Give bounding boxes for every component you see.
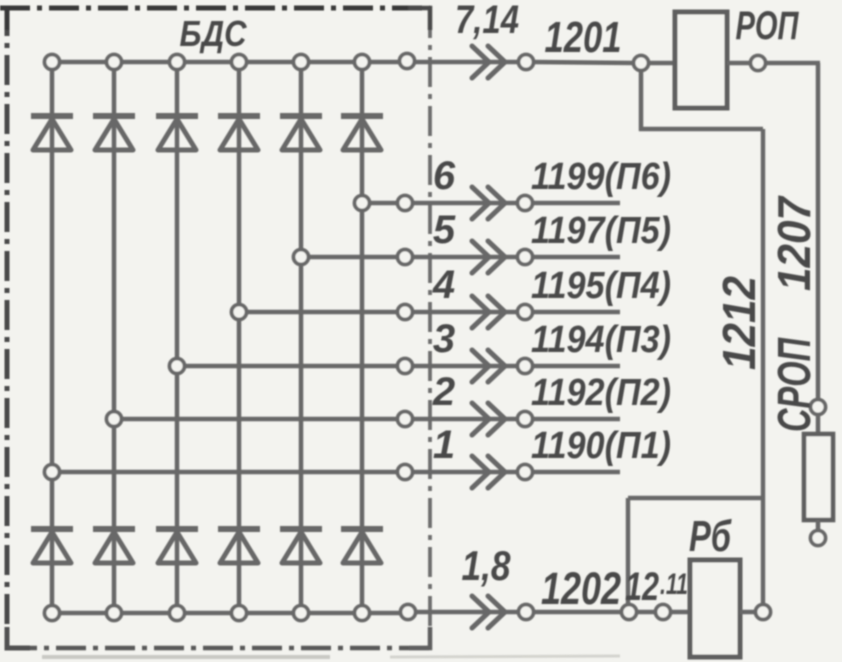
terminal tap 4 — [398, 305, 413, 320]
svg-text:12: 12 — [625, 565, 659, 609]
wire tap 5 stub under label — [532, 255, 620, 260]
svg-text:3: 3 — [433, 317, 455, 361]
terminal circle tap 3 external — [518, 359, 533, 374]
node junction before РОП — [634, 56, 649, 71]
svg-text:1212: 1212 — [713, 276, 765, 370]
terminal circle 1202 — [519, 605, 534, 620]
svg-text:1,8: 1,8 — [462, 542, 512, 589]
wire column 5 — [299, 68, 304, 607]
terminal circle tap 6 external — [518, 196, 533, 211]
wire bottom bus inside БДС — [52, 611, 408, 616]
wire column 2 — [112, 68, 117, 607]
terminal circle tap 2 external — [518, 412, 533, 427]
diode top row 1 — [31, 113, 73, 119]
node tap 6 on column 6 — [355, 196, 370, 211]
connector arrows tap 5 — [472, 241, 489, 273]
diode top row 4 — [218, 113, 260, 119]
wire 1201 to node — [533, 62, 634, 63]
wire tap 5 to border — [308, 255, 399, 260]
svg-text:РОП: РОП — [736, 4, 800, 48]
terminal circle 1201 — [519, 55, 534, 70]
terminal bottom bus at БДС edge — [401, 605, 416, 620]
terminal tap 2 — [398, 412, 413, 427]
svg-text:6: 6 — [433, 154, 456, 198]
node top bus column 6 — [355, 55, 370, 70]
БДС enclosure dashed border bottom — [7, 646, 430, 651]
wire tap 3 to border — [184, 364, 399, 369]
wire 1212 vertical — [761, 129, 765, 605]
svg-text:2: 2 — [432, 370, 455, 414]
wire contact 12 to contact 11 — [636, 610, 657, 615]
wire bottom bus external lead — [414, 610, 519, 615]
wire РБ to terminal — [740, 610, 757, 615]
wire РОП pin 2 to terminal — [727, 61, 751, 66]
wire 1202 — [533, 610, 622, 615]
wire contact 11 to РБ — [670, 610, 690, 615]
БДС enclosure dashed border left — [5, 6, 10, 649]
diode bottom row 5 — [280, 526, 322, 532]
connector arrows tap 2 — [472, 403, 489, 435]
БДС border corner pieces — [7, 8, 30, 30]
node bottom bus column 4 — [232, 606, 247, 621]
node top bus column 2 — [107, 55, 122, 70]
terminal circle right of РБ — [756, 605, 771, 620]
connector arrows tap 6 — [472, 187, 489, 219]
wire tap 3 external lead-in — [411, 364, 519, 369]
wire top bus external lead — [414, 60, 519, 65]
relay РОП — [675, 12, 727, 108]
БДС enclosure dashed border right — [428, 8, 432, 649]
node tap 5 on column 5 — [294, 250, 309, 265]
node bottom bus column 6 — [355, 606, 370, 621]
svg-text:1190(П1): 1190(П1) — [531, 425, 671, 467]
wire tap 2 stub under label — [532, 417, 620, 422]
connector arrows bottom (contacts 1,8) — [472, 596, 489, 628]
wire column 4 — [237, 68, 242, 607]
terminal circle below resistor СРОП — [811, 531, 826, 546]
svg-text:1207: 1207 — [768, 195, 820, 291]
node tap 2 on column 2 — [107, 412, 122, 427]
node top bus column 3 — [170, 55, 185, 70]
connector arrows tap 3 — [472, 350, 489, 382]
terminal circle tap 4 external — [518, 305, 533, 320]
wire tap 5 external lead-in — [411, 255, 519, 260]
wire top bus inside БДС — [52, 60, 408, 65]
diode bottom row 2 — [93, 526, 135, 532]
wire column 1 — [50, 68, 55, 607]
diode top row 6 — [341, 113, 383, 119]
terminal tap 3 — [398, 359, 413, 374]
scan smear under bottom border — [42, 655, 330, 659]
terminal circle tap 5 external — [518, 250, 533, 265]
node tap 4 on column 4 — [232, 305, 247, 320]
diode bottom row 1 — [31, 526, 73, 532]
node tap 3 on column 3 — [170, 359, 185, 374]
svg-text:1197(П5): 1197(П5) — [531, 210, 671, 252]
node bottom bus column 2 — [107, 606, 122, 621]
wire tap 1 to border — [59, 470, 399, 475]
svg-text:1192(П2): 1192(П2) — [531, 372, 671, 414]
wire 1212 horizontal upper — [639, 127, 763, 131]
svg-text:1202: 1202 — [541, 563, 621, 614]
wire tap 6 stub under label — [532, 201, 620, 206]
wire tap 1 stub under label — [532, 470, 620, 475]
wire tap 4 external lead-in — [411, 310, 519, 315]
wire tap 6 to border — [369, 201, 399, 206]
connector arrows top (contacts 7,14) — [472, 46, 489, 78]
terminal circle above resistor СРОП — [811, 400, 826, 415]
node top bus column 1 — [45, 55, 60, 70]
wire column 3 — [175, 68, 180, 607]
svg-text:1194(П3): 1194(П3) — [531, 319, 671, 361]
БДС enclosure dashed border top — [0, 6, 430, 11]
wire 1207 vertical — [816, 63, 821, 402]
terminal tap 1 — [398, 465, 413, 480]
svg-text:1195(П4): 1195(П4) — [531, 265, 671, 307]
wire tap 4 to border — [246, 310, 399, 315]
svg-text:1201: 1201 — [545, 13, 622, 62]
diode top row 5 — [280, 113, 322, 119]
diode bottom row 6 — [341, 526, 383, 532]
svg-text:.11: .11 — [660, 568, 688, 601]
svg-text:7,14: 7,14 — [455, 0, 519, 42]
diode top row 3 — [156, 113, 198, 119]
node bottom bus column 1 — [45, 606, 60, 621]
terminal tap 6 — [398, 196, 413, 211]
resistor СРОП — [804, 434, 833, 520]
relay РБ — [690, 560, 740, 657]
terminal circle right of РОП — [751, 56, 766, 71]
connector contact 11 — [656, 605, 671, 620]
svg-text:5: 5 — [433, 208, 456, 252]
wire 1207 horizontal — [765, 61, 820, 66]
wire branch to connector contact 12 vertical — [626, 498, 630, 605]
node bottom bus column 3 — [170, 606, 185, 621]
svg-text:БДС: БДС — [180, 13, 248, 54]
wire terminal to resistor СРОП — [816, 414, 821, 434]
wire tap 4 stub under label — [532, 310, 620, 315]
wire resistor СРОП bottom lead — [816, 520, 821, 531]
diode bottom row 4 — [218, 526, 260, 532]
wire tap 1 external lead-in — [411, 470, 519, 475]
connector arrows tap 1 — [472, 456, 489, 488]
wire tap 2 external lead-in — [411, 417, 519, 422]
diode top row 2 — [93, 113, 135, 119]
svg-text:СРОП: СРОП — [768, 337, 820, 432]
svg-text:1199(П6): 1199(П6) — [531, 156, 671, 198]
terminal circle tap 1 external — [518, 465, 533, 480]
node tap 1 on column 1 — [45, 465, 60, 480]
terminal top bus at БДС edge — [400, 54, 415, 69]
diode bottom row 3 — [156, 526, 198, 532]
connector contact 12 — [622, 605, 637, 620]
node top bus column 5 — [294, 55, 309, 70]
wire column 6 — [360, 68, 365, 607]
wire tap 6 external lead-in — [411, 201, 519, 206]
connector arrows tap 4 — [472, 296, 489, 328]
wire node to РОП pin 1 — [648, 61, 675, 66]
wire tap 3 stub under label — [532, 364, 620, 369]
wire tap 2 to border — [121, 417, 399, 422]
node bottom bus column 5 — [294, 606, 309, 621]
wire branch to connector contact 12 horizontal — [628, 496, 763, 500]
svg-text:Рб: Рб — [689, 512, 732, 561]
wire 1212 drop from node — [639, 70, 644, 131]
terminal tap 5 — [398, 250, 413, 265]
svg-text:4: 4 — [432, 263, 455, 307]
svg-text:1: 1 — [433, 423, 455, 467]
node top bus column 4 — [232, 55, 247, 70]
